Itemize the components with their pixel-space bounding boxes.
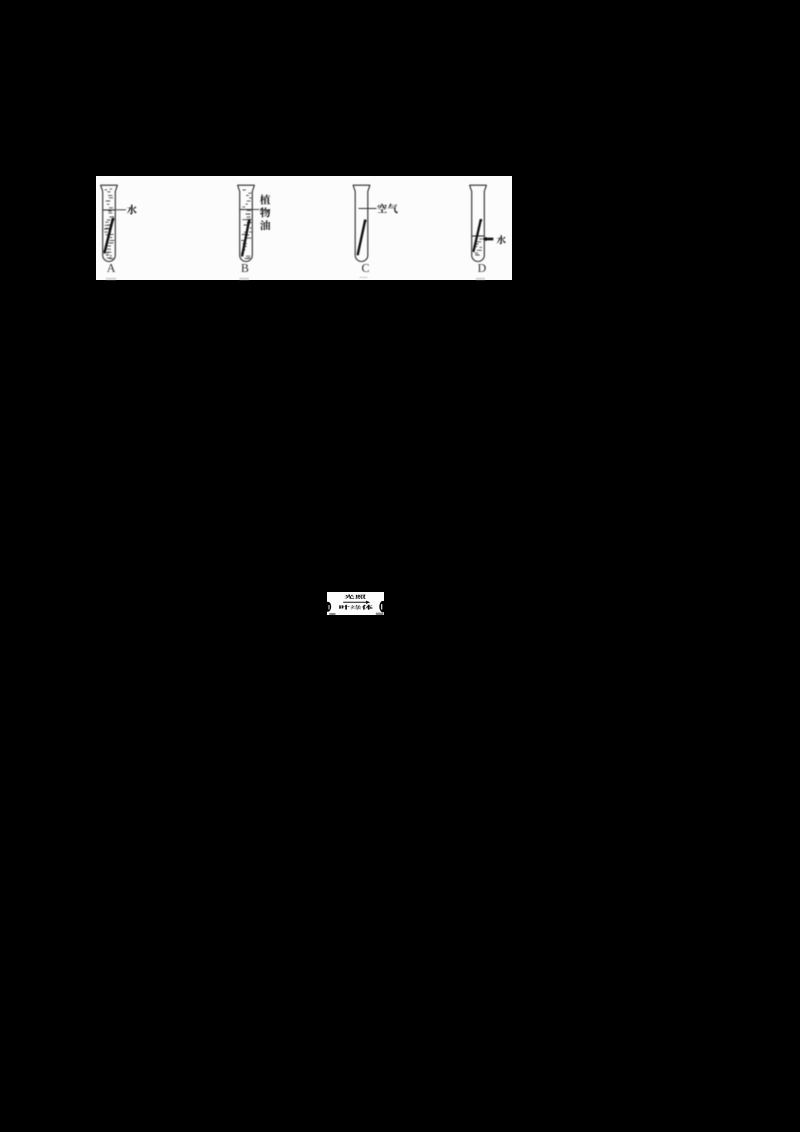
figure 1: four test tubes A-D experiment (96, 176, 512, 280)
thick arrow to label water (tube D) (482, 237, 493, 241)
faint smudge under A (106, 278, 116, 280)
faint smudge under B (240, 278, 250, 280)
gray tab bottom left (329, 613, 335, 615)
tube letter D (478, 264, 486, 272)
water hatching in tube A (103, 189, 115, 258)
test tube D outline (470, 185, 487, 261)
gray tab bottom right (376, 613, 384, 615)
test tube A outline (101, 185, 118, 261)
left parenthesis fragment (324, 602, 331, 612)
test tube B outline (238, 185, 255, 261)
faint smudge under C (360, 277, 368, 279)
faint smudge under D (476, 278, 485, 280)
seedling stem in tube C (358, 219, 367, 254)
leader line to label oil (tube B) (253, 209, 259, 211)
seedling stem in tube A (105, 218, 115, 252)
seedling stem in tube B (242, 219, 250, 255)
label 水 (tube D) (497, 235, 506, 244)
leader line to label air (tube C) (359, 208, 377, 210)
test tube C outline (353, 185, 370, 261)
label 植物油 (tube B, vertical) (260, 195, 270, 231)
right parenthesis fragment (379, 601, 386, 612)
label 空气 (tube C) (377, 204, 397, 214)
label 叶绿体 (below arrow) (339, 605, 373, 610)
tube letter C (362, 264, 369, 272)
tube letter A (107, 264, 115, 272)
leader line to label water (tube A) (116, 209, 126, 211)
figure 2: photosynthesis formula fragment (327, 592, 384, 615)
water hatching in tube D (472, 236, 484, 255)
tube letter B (241, 264, 248, 272)
label 光照 (above arrow) (344, 595, 365, 599)
label 水 (tube A) (127, 205, 137, 215)
oil hatching in tube B (240, 190, 252, 259)
reaction arrow (343, 601, 370, 604)
seedling stem in tube D (474, 219, 483, 251)
